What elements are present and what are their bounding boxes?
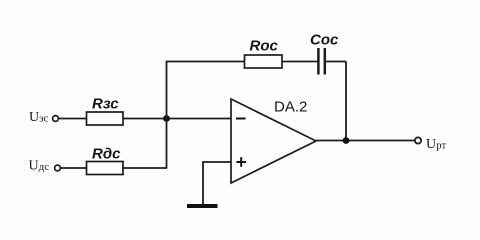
capacitor Coc [318, 48, 324, 75]
svg-text:Rдс: Rдс [92, 146, 121, 163]
svg-text:Uзс: Uзс [29, 110, 48, 125]
svg-text:DA.2: DA.2 [274, 99, 307, 116]
wire [282, 61, 318, 63]
pin minus [236, 118, 246, 120]
resistor Rзс [87, 112, 124, 125]
output node [343, 137, 350, 144]
svg-text:Uрт: Uрт [426, 137, 446, 152]
svg-text:Roc: Roc [250, 38, 279, 55]
ground [187, 204, 218, 208]
terminal Uзс [53, 116, 59, 122]
wire [166, 62, 168, 169]
resistor Rдс [87, 162, 124, 175]
svg-text:Uдс: Uдс [29, 159, 50, 174]
wire [123, 167, 167, 169]
wire [202, 161, 204, 204]
wire [123, 118, 231, 120]
wire [326, 61, 346, 63]
wire [59, 118, 87, 120]
wire [166, 61, 245, 63]
wire [203, 161, 231, 163]
terminal Uрт [415, 137, 421, 143]
resistor Roc [245, 55, 283, 68]
wire [61, 167, 87, 169]
terminal Uдс [55, 165, 61, 171]
svg-text:Coc: Coc [310, 32, 339, 49]
op-amp DA.2 [231, 99, 316, 183]
wire [316, 140, 415, 142]
pin plus [236, 157, 246, 167]
svg-text:Rзс: Rзс [92, 96, 119, 113]
node A junction [163, 115, 170, 122]
wire [345, 62, 347, 141]
